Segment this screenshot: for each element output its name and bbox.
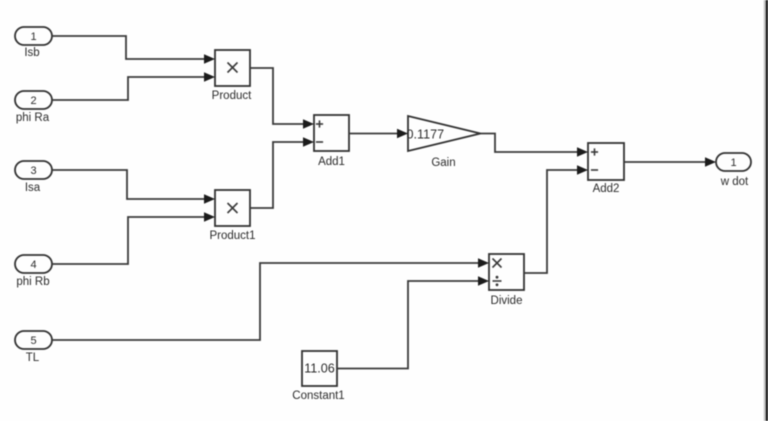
block Add2 bbox=[588, 143, 624, 195]
block Product1 bbox=[209, 190, 255, 242]
svg-text:Isb: Isb bbox=[24, 47, 39, 59]
svg-text:Add1: Add1 bbox=[318, 156, 345, 168]
svg-text:TL: TL bbox=[26, 352, 40, 364]
wire Add2 out to w dot bbox=[624, 157, 716, 167]
svg-text:phi Rb: phi Rb bbox=[16, 276, 49, 288]
svg-text:phi Ra: phi Ra bbox=[16, 112, 50, 124]
svg-text:Gain: Gain bbox=[431, 157, 455, 169]
wire Gain out to Add2 plus bbox=[481, 134, 589, 157]
wire Product out to Add1 plus bbox=[250, 68, 314, 129]
svg-text:4: 4 bbox=[30, 259, 36, 271]
wire Product1 out to Add1 minus bbox=[250, 137, 314, 208]
svg-text:1: 1 bbox=[730, 157, 736, 169]
input port 4 (phi Rb) bbox=[15, 255, 52, 288]
wire Constant1 to Divide in2 bbox=[337, 276, 489, 368]
input port 5 (TL) bbox=[15, 331, 52, 364]
svg-text:w dot: w dot bbox=[720, 176, 749, 188]
wire phi Rb to Product1 in2 bbox=[52, 212, 215, 264]
svg-text:Product1: Product1 bbox=[209, 230, 255, 242]
svg-text:2: 2 bbox=[30, 95, 36, 107]
block Add1 bbox=[314, 115, 349, 168]
svg-text:Product: Product bbox=[212, 90, 252, 102]
block Product bbox=[212, 50, 252, 102]
block Constant1 (11.06) bbox=[292, 351, 344, 402]
output port 1 (w dot) bbox=[716, 153, 751, 188]
input port 3 (Isa) bbox=[15, 161, 52, 194]
wire phi Ra to Product in2 bbox=[52, 72, 215, 100]
input port 2 (phi Ra) bbox=[15, 91, 52, 124]
wire Add1 out to Gain bbox=[349, 129, 408, 139]
block Divide bbox=[489, 254, 524, 307]
wire Isa to Product1 in1 bbox=[52, 170, 215, 204]
svg-text:Add2: Add2 bbox=[593, 183, 620, 195]
block Gain (0.1177) bbox=[407, 116, 481, 169]
wire TL to Divide in1 bbox=[52, 258, 489, 340]
wire Divide out to Add2 minus bbox=[524, 165, 588, 273]
svg-text:Constant1: Constant1 bbox=[292, 390, 344, 402]
svg-text:1: 1 bbox=[30, 31, 36, 43]
right window border bbox=[764, 0, 768, 421]
svg-text:Divide: Divide bbox=[491, 295, 523, 307]
svg-text:Isa: Isa bbox=[25, 182, 41, 194]
svg-text:3: 3 bbox=[30, 165, 36, 177]
input port 1 (Isb) bbox=[15, 27, 52, 59]
svg-text:11.06: 11.06 bbox=[304, 362, 335, 376]
wire Isb to Product in1 bbox=[52, 36, 215, 64]
svg-text:5: 5 bbox=[30, 335, 36, 347]
svg-text:0.1177: 0.1177 bbox=[407, 128, 445, 142]
